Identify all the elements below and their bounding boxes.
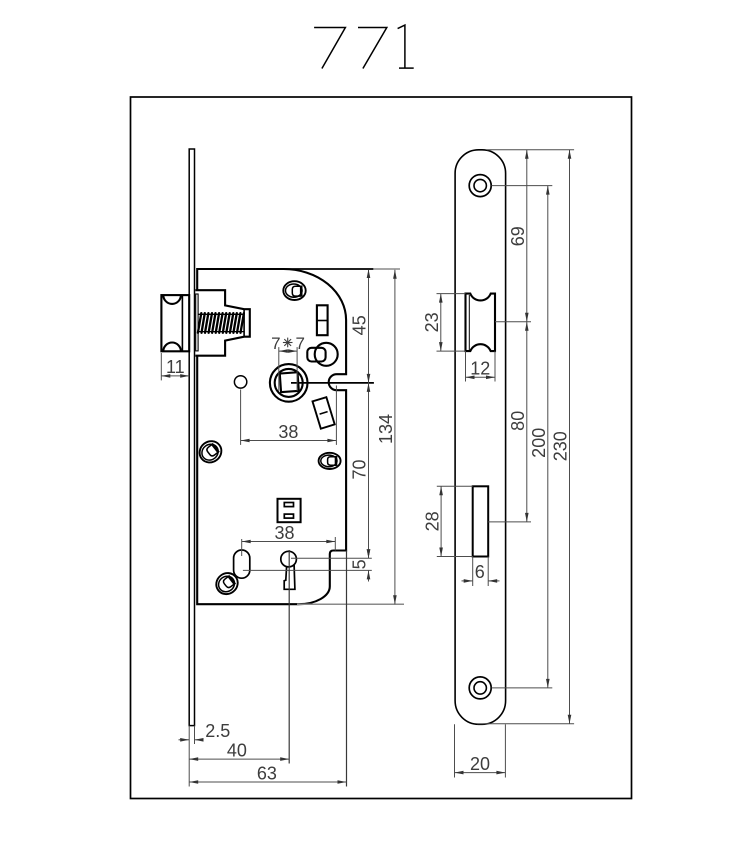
lock case outline [197,269,346,604]
svg-text:38: 38 [274,523,294,543]
dim 40 [189,758,289,760]
dim 38 lower [241,539,243,556]
rivet top [283,281,305,300]
title 771 [314,25,414,68]
latch bolt tail [195,290,249,356]
rivet left tilted [195,437,225,467]
dim 2.5 [179,739,190,741]
dim 45 [284,268,374,270]
dim 80 [488,521,531,523]
extension lines lower [346,551,348,787]
stop pin [307,343,337,366]
guide pin circle [234,376,246,388]
rivet right middle [319,453,341,469]
dim 38 upper [240,390,242,445]
svg-text:2.5: 2.5 [205,721,230,741]
dim 7x7 [278,347,280,391]
dim 134 [297,603,404,605]
tilted lever plate [313,397,335,428]
svg-text:80: 80 [508,411,528,431]
svg-text:5: 5 [350,559,370,569]
keyhole [281,551,297,589]
svg-text:230: 230 [551,431,571,461]
dim 5 [291,557,372,559]
dim 69 [487,149,574,151]
follower centre line [291,382,374,384]
svg-text:38: 38 [278,422,298,442]
svg-text:20: 20 [470,754,490,774]
faceplate side view strip [189,149,194,726]
lever spring box [278,499,301,522]
dim 28 [437,485,473,487]
svg-text:40: 40 [227,740,247,760]
dim 11 [160,353,162,380]
svg-text:23: 23 [422,312,442,332]
svg-text:7: 7 [295,334,304,353]
svg-text:134: 134 [376,414,396,444]
latch spring coil [198,313,244,333]
svg-text:45: 45 [350,315,370,335]
roller latch cutout [466,294,496,352]
svg-text:11: 11 [166,357,185,377]
dim 20 [454,724,456,777]
oval hole [234,550,250,578]
svg-text:63: 63 [257,763,277,783]
face plate outline [455,150,506,725]
svg-text:6: 6 [475,562,485,582]
deadbolt cutout [473,486,489,556]
rivet bottom left tilted [212,569,242,599]
svg-text:7: 7 [271,334,280,353]
dim 70 [368,383,370,558]
dim 63 [189,781,346,783]
screw hole top [469,175,491,197]
dim 200 [492,185,553,187]
dim 23 [437,293,466,295]
dim 12 [465,351,467,381]
svg-text:28: 28 [422,511,442,531]
square follower hub [270,364,308,402]
svg-text:200: 200 [529,428,549,458]
latch bolt head [161,295,189,351]
drawing border frame [131,97,632,799]
screw hole bottom [469,677,491,699]
svg-text:12: 12 [470,359,490,379]
svg-text:70: 70 [350,459,370,479]
vertical slot [317,305,328,335]
svg-text:69: 69 [508,226,528,246]
dim 230 [477,723,574,725]
dim 6 [472,557,474,587]
